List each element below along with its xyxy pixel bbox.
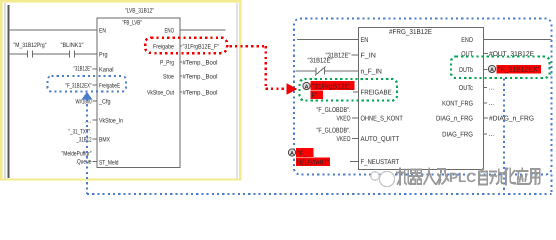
svg-text:VKEO: VKEO xyxy=(337,136,351,143)
svg-text:#Temp._Bool: #Temp._Bool xyxy=(183,74,218,81)
svg-text:KONT_FRG: KONT_FRG xyxy=(442,101,473,108)
symbol missing icon A xyxy=(303,82,310,90)
svg-text:F_IN: F_IN xyxy=(361,53,376,60)
svg-text:"F_GLOBDB".: "F_GLOBDB". xyxy=(317,128,351,135)
function block #FRG_31B12E xyxy=(359,28,484,170)
svg-text:...: ... xyxy=(489,85,495,92)
svg-text:F": F" xyxy=(312,92,319,99)
svg-text:"F_31B12EX": "F_31B12EX" xyxy=(498,67,541,74)
wire contact rung xyxy=(8,53,28,55)
svg-text:...: ... xyxy=(85,117,92,124)
svg-text:"LVB_31B12": "LVB_31B12" xyxy=(125,8,154,15)
svg-text:ST_Meld: ST_Meld xyxy=(99,160,119,167)
svg-text:OUTb: OUTb xyxy=(459,66,473,74)
svg-text:F_NEUSTART: F_NEUSTART xyxy=(361,159,400,166)
svg-text:Prg: Prg xyxy=(99,52,108,59)
svg-text:#DIAG_n_FRG: #DIAG_n_FRG xyxy=(489,116,534,123)
watermark text 机器人及PLC自动化应用 (drawn strokes) xyxy=(397,169,409,185)
green dotted highlight box FREIGABE xyxy=(300,79,398,101)
red dotted connector xyxy=(230,45,267,48)
svg-text:Freigabe: Freigabe xyxy=(153,44,174,51)
editor pane yellow border xyxy=(1,1,240,179)
green dotted highlight box OUTb xyxy=(451,57,550,79)
svg-text:A: A xyxy=(290,151,294,157)
operand 31FrgB12E_F red highlight xyxy=(311,81,355,90)
operand #DIAG_n_FRG xyxy=(484,117,489,119)
svg-text:_Cfg: _Cfg xyxy=(98,99,111,106)
svg-text:"31FrgB12E_F": "31FrgB12E_F" xyxy=(183,44,220,51)
svg-text:"FB_LVB": "FB_LVB" xyxy=(122,20,142,27)
red dotted highlight box Freigabe xyxy=(145,38,227,54)
svg-text:AUTO_QUITT: AUTO_QUITT xyxy=(361,136,400,143)
svg-text:FREIGABE: FREIGABE xyxy=(361,90,392,97)
wire EN in xyxy=(297,39,359,41)
svg-text:"F_31B12EX": "F_31B12EX" xyxy=(66,82,92,89)
power rail xyxy=(8,5,10,178)
svg-text:"31FrgB12E_: "31FrgB12E_ xyxy=(312,83,354,90)
red arrow into FREIGABE xyxy=(287,84,298,95)
svg-text:"BLINK1": "BLINK1" xyxy=(61,42,84,49)
svg-text:EN: EN xyxy=(99,28,106,35)
operand OUT to #OUT_31B12E xyxy=(484,53,489,55)
svg-text:P_Prg: P_Prg xyxy=(160,60,174,67)
operand P_Prg Temp Bool xyxy=(180,61,182,63)
svg-text:FreigabeE: FreigabeE xyxy=(99,83,120,90)
svg-text:A: A xyxy=(490,67,494,73)
contact M_31B12Prg xyxy=(27,51,29,58)
svg-text:DIAG_FRG: DIAG_FRG xyxy=(442,132,473,139)
operand Freigabe out 31FrgB12E_F xyxy=(180,45,182,47)
svg-text:#FRG_31B12E: #FRG_31B12E xyxy=(389,29,432,36)
wire ENO out xyxy=(484,39,552,41)
svg-text:_31B12: _31B12 xyxy=(76,136,92,143)
svg-text:NEUSTART": NEUSTART" xyxy=(297,159,329,166)
svg-text:A: A xyxy=(304,84,308,90)
svg-text:...: ... xyxy=(489,131,495,138)
svg-text:#Temp._Bool: #Temp._Bool xyxy=(183,90,218,97)
svg-text:.Queue: .Queue xyxy=(76,159,92,166)
unconnected DIAG_FRG xyxy=(484,133,488,135)
operand F_31B12EX red highlight at OUTb xyxy=(484,69,488,71)
svg-text:...: ... xyxy=(489,100,495,107)
svg-text:DIAG_n_FRG: DIAG_n_FRG xyxy=(436,116,473,123)
svg-text:ENO: ENO xyxy=(461,37,473,44)
svg-text:VKEO: VKEO xyxy=(337,115,351,122)
svg-text:OUTc: OUTc xyxy=(459,85,474,92)
blue dotted connector OUTb to FreigabeE xyxy=(503,79,505,195)
unconnected OUTc xyxy=(484,87,488,89)
svg-text:EN: EN xyxy=(361,37,369,44)
operand Stoe Temp Bool xyxy=(180,75,182,77)
wire rail to EN xyxy=(8,29,97,31)
operand F_NEUSTART red highlight xyxy=(288,149,295,157)
svg-text:n_F_IN: n_F_IN xyxy=(361,69,382,76)
svg-text:Kanal: Kanal xyxy=(99,67,114,74)
svg-text:"F_: "F_ xyxy=(297,150,307,157)
svg-text:ENO: ENO xyxy=(165,28,175,35)
svg-text:"_31_TXT".: "_31_TXT". xyxy=(69,128,92,135)
svg-text:OHNE_S_KONT: OHNE_S_KONT xyxy=(361,116,404,123)
svg-text:"31B12E": "31B12E" xyxy=(308,58,333,65)
editor pane inner bevel lines xyxy=(4,3,6,179)
operand VkStoe_Out Temp Bool xyxy=(180,91,182,93)
svg-text:BMX: BMX xyxy=(99,137,111,144)
function block FB_LVB LVB_31B12 xyxy=(97,18,180,168)
svg-text:"F_GLOBDB".: "F_GLOBDB". xyxy=(317,107,351,114)
wire ENO out xyxy=(180,29,226,31)
watermark logo circles xyxy=(371,172,380,181)
blue dashed callout box xyxy=(294,19,552,175)
contact BLINK1 xyxy=(69,51,71,58)
svg-text:VkStoe_Out: VkStoe_Out xyxy=(147,90,174,97)
blue dashed highlight box F_31B12EX xyxy=(48,76,127,92)
unconnected KONT_FRG xyxy=(484,102,488,104)
svg-text:"M_31B12Prg": "M_31B12Prg" xyxy=(14,42,47,49)
svg-text:"31B12E": "31B12E" xyxy=(74,65,92,72)
svg-text:Stoe: Stoe xyxy=(163,74,174,81)
svg-text:#Temp._Bool: #Temp._Bool xyxy=(183,60,218,67)
svg-text:VkStoe_In: VkStoe_In xyxy=(99,118,123,125)
svg-text:PLC: PLC xyxy=(449,170,476,185)
